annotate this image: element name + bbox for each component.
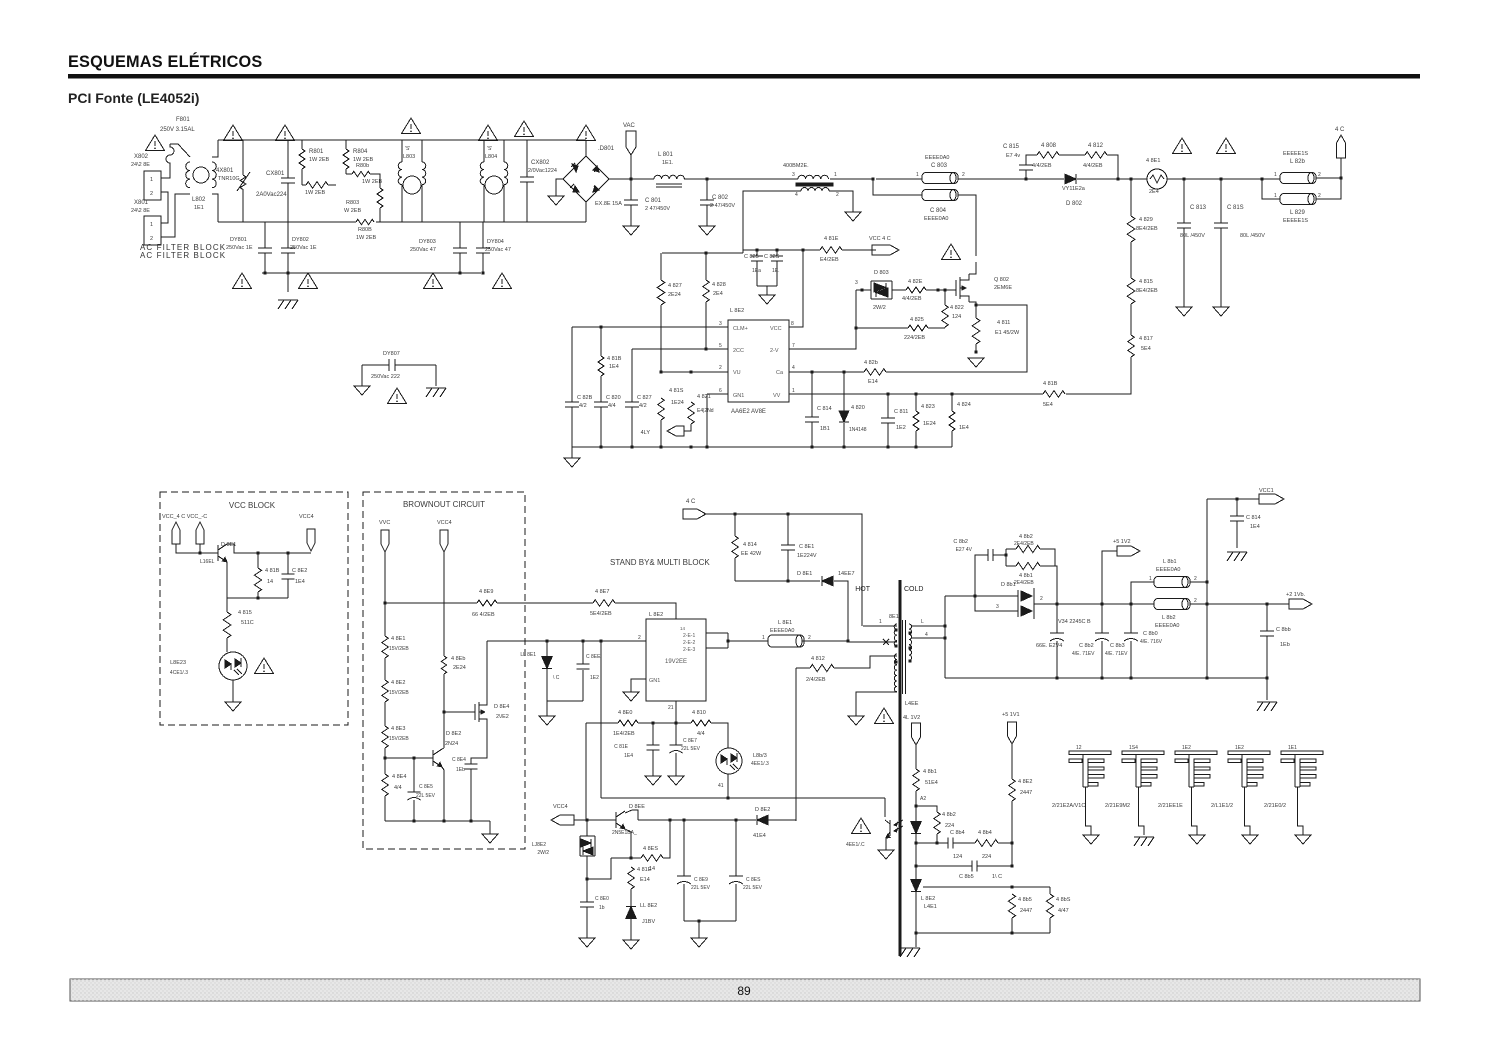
- wire: [660, 420, 662, 447]
- wire: [1190, 581, 1207, 583]
- svg-text:C 8b4: C 8b4: [950, 830, 965, 836]
- wire: [226, 638, 228, 652]
- svg-text:14: 14: [680, 626, 686, 631]
- svg-text:2: 2: [1318, 193, 1321, 199]
- wire: [482, 222, 484, 248]
- capacitor C811: [881, 418, 895, 423]
- svg-text:1E2: 1E2: [1235, 745, 1244, 751]
- resistor R812: [1085, 152, 1107, 159]
- junction: [198, 551, 201, 554]
- svg-text:4 815: 4 815: [238, 610, 252, 616]
- choke L802 common-mode choke: [186, 162, 217, 188]
- svg-text:6: 6: [719, 388, 722, 394]
- wire: [435, 365, 437, 386]
- wire: [638, 819, 756, 821]
- svg-text:1E4: 1E4: [624, 753, 633, 759]
- wire: [226, 598, 228, 612]
- wire: [586, 907, 588, 938]
- wire: [287, 273, 289, 292]
- junction: [1129, 177, 1132, 180]
- svg-text:LJ8E2: LJ8E2: [532, 842, 546, 848]
- wire: [586, 856, 588, 879]
- connector 4LY: [667, 426, 684, 436]
- svg-text:2/4/2EB: 2/4/2EB: [806, 677, 826, 683]
- svg-text:VVC: VVC: [379, 520, 390, 526]
- wire: [489, 821, 491, 834]
- svg-text:66E. E2V4: 66E. E2V4: [1036, 643, 1062, 649]
- svg-text:2E4/2EB: 2E4/2EB: [1014, 580, 1034, 586]
- inductor L804 left winding: [480, 162, 484, 185]
- heatsink HS5: [1281, 751, 1323, 787]
- junction: [705, 445, 708, 448]
- transistor Q802 MOSFET: [956, 274, 969, 302]
- heatsink HS3: [1175, 751, 1217, 787]
- svg-text:VU: VU: [733, 370, 741, 376]
- wire: [776, 250, 778, 256]
- wire U802 input: [487, 640, 646, 642]
- svg-text:250Vac 1E: 250Vac 1E: [226, 245, 253, 251]
- svg-text:R804: R804: [353, 149, 368, 155]
- wire: [630, 205, 632, 226]
- capacitor C815: [1019, 165, 1033, 170]
- wire rectified rail: [609, 178, 654, 180]
- svg-text:1: 1: [150, 177, 153, 183]
- wire ground bus: [572, 446, 952, 448]
- svg-text:C 814: C 814: [1246, 515, 1261, 521]
- wire: [401, 185, 403, 222]
- wire pin3: [572, 326, 728, 328]
- wire: [1101, 641, 1103, 678]
- svg-text:2W/2: 2W/2: [537, 850, 549, 856]
- junction: [1219, 177, 1222, 180]
- ground C8E9: [691, 938, 707, 947]
- svg-text:4 823: 4 823: [921, 404, 935, 410]
- wire: [638, 722, 691, 724]
- svg-text:250Vac 47: 250Vac 47: [410, 247, 436, 253]
- junction: [914, 841, 917, 844]
- svg-text:4/4: 4/4: [697, 731, 705, 737]
- svg-text:C 8E4: C 8E4: [452, 757, 466, 763]
- wire: [675, 723, 677, 745]
- wire: [483, 185, 485, 222]
- wire: [395, 364, 436, 366]
- wire: [242, 140, 244, 175]
- resistor R8b2: [1016, 545, 1040, 552]
- wire: [585, 140, 587, 156]
- svg-text:1W 2EB: 1W 2EB: [305, 190, 326, 196]
- svg-text:C 8b0: C 8b0: [1143, 631, 1158, 637]
- wire: [442, 748, 444, 749]
- wire right rail: [1206, 499, 1208, 678]
- svg-text:DY807: DY807: [383, 351, 400, 357]
- svg-text:4 82E: 4 82E: [908, 279, 923, 285]
- junction: [842, 445, 845, 448]
- junction: [630, 445, 633, 448]
- wire: [1220, 179, 1222, 223]
- svg-text:L 8E2: L 8E2: [921, 896, 935, 902]
- heatsink HS4: [1228, 751, 1270, 787]
- capacitor C825: [751, 256, 763, 261]
- wire: [776, 261, 778, 286]
- wire primary pin1: [863, 625, 897, 627]
- svg-text:4 8ES: 4 8ES: [643, 846, 658, 852]
- capacitor C8EE: [577, 664, 590, 669]
- svg-text:2/0Vac1224: 2/0Vac1224: [528, 168, 557, 174]
- svg-text:24\2 8E: 24\2 8E: [131, 208, 150, 214]
- svg-text:E14: E14: [640, 877, 650, 883]
- wire: [683, 820, 685, 876]
- svg-text:4 812: 4 812: [1088, 143, 1104, 149]
- junction: [950, 392, 953, 395]
- svg-text:4/4: 4/4: [394, 785, 402, 791]
- wire: [525, 602, 593, 604]
- resistor R808: [1037, 152, 1059, 159]
- wire: [586, 820, 588, 836]
- warning triangle: [479, 125, 498, 141]
- svg-text:VV: VV: [773, 393, 781, 399]
- ground HS5: [1295, 835, 1311, 844]
- wire output rail: [1034, 603, 1057, 605]
- svg-text:4 822: 4 822: [950, 305, 964, 311]
- svg-text:2: 2: [150, 236, 153, 242]
- optocoupler U8E23 optocoupler: [219, 652, 247, 680]
- resistor R827: [657, 280, 665, 305]
- wire VCC1: [1207, 498, 1259, 500]
- resistor R82b2: [864, 369, 886, 376]
- svg-text:C 8b5: C 8b5: [959, 874, 974, 880]
- title rule: [68, 74, 1420, 79]
- capacitor C813: [1177, 223, 1191, 228]
- svg-text:4 8E4: 4 8E4: [392, 774, 406, 780]
- wire secondary pin: [911, 625, 945, 627]
- svg-text:CLM+: CLM+: [733, 326, 748, 332]
- svg-text:4/E. 71EV: 4/E. 71EV: [1072, 651, 1095, 657]
- wire: [302, 184, 306, 186]
- svg-text:4 825: 4 825: [910, 317, 924, 323]
- svg-text:EEEEE1S: EEEEE1S: [1283, 151, 1308, 157]
- wire: [951, 394, 953, 411]
- svg-text:4 8E1: 4 8E1: [1146, 158, 1160, 164]
- resistor R806: [352, 171, 370, 176]
- svg-text:1E4: 1E4: [959, 425, 969, 431]
- wire: [830, 178, 873, 180]
- svg-text:2E4: 2E4: [713, 291, 723, 297]
- junction: [786, 579, 789, 582]
- wire heatsink stem: [1086, 787, 1092, 835]
- resistor R8E4: [382, 774, 389, 796]
- junction: [1265, 676, 1268, 679]
- ground C81S: [1213, 307, 1229, 316]
- svg-text:4/4: 4/4: [608, 403, 616, 409]
- svg-text:1N4148: 1N4148: [849, 427, 867, 433]
- capacitor C827: [625, 402, 639, 407]
- wire: [887, 423, 889, 447]
- wire: [264, 222, 266, 248]
- wire: [571, 447, 573, 458]
- svg-text:1W 2EB: 1W 2EB: [362, 179, 383, 185]
- choke L803 core: [403, 176, 421, 194]
- svg-text:8E1: 8E1: [889, 614, 899, 620]
- junction: [1205, 676, 1208, 679]
- svg-text:X801: X801: [134, 200, 149, 206]
- wire: [675, 753, 677, 776]
- wire: [611, 857, 641, 859]
- op-amp U801 PFC controller: [728, 320, 789, 402]
- choke L804 core: [485, 176, 503, 194]
- svg-text:CX801: CX801: [266, 171, 285, 177]
- svg-text:4 808: 4 808: [1041, 143, 1057, 149]
- wire: [1059, 154, 1085, 156]
- junction: [697, 919, 700, 922]
- capacitor C8E1cyl: [768, 635, 804, 647]
- wire heatsink stem: [1192, 787, 1198, 835]
- resistor R8bS: [1046, 894, 1053, 918]
- capacitor DY801: [258, 248, 272, 253]
- wire primary pin4: [856, 692, 897, 716]
- svg-text:C 8b2: C 8b2: [1079, 643, 1094, 649]
- svg-text:L8b/3: L8b/3: [753, 753, 767, 759]
- svg-text:4 8E7: 4 8E7: [595, 589, 609, 595]
- svg-text:C 81E: C 81E: [614, 744, 629, 750]
- wire to primary: [848, 641, 897, 643]
- warning triangle Q802: [942, 244, 961, 260]
- svg-text:2 47/450V: 2 47/450V: [645, 206, 670, 212]
- svg-text:C 8E1: C 8E1: [799, 544, 814, 550]
- junction: [943, 288, 946, 291]
- svg-text:1E4/2EB: 1E4/2EB: [613, 731, 635, 737]
- wire U802 out: [728, 640, 768, 642]
- resistor R81E2: [628, 867, 635, 889]
- svg-text:2: 2: [719, 365, 722, 371]
- svg-text:5E4/2EB: 5E4/2EB: [590, 611, 612, 617]
- junction: [842, 370, 845, 373]
- resistor R823: [913, 411, 919, 431]
- wire: [161, 192, 168, 223]
- svg-text:2N5E1BA_: 2N5E1BA_: [612, 830, 637, 836]
- wire: [384, 796, 386, 821]
- wire anode bottom: [975, 596, 1018, 611]
- connector VCC_4: [172, 522, 180, 544]
- capacitor C8E0: [580, 902, 594, 907]
- wire VVC chain: [384, 552, 386, 636]
- capacitor C8E7: [670, 745, 683, 753]
- svg-text:DY801: DY801: [230, 237, 247, 243]
- wire: [1006, 565, 1016, 567]
- wire: [199, 544, 201, 553]
- svg-text:E14: E14: [868, 379, 878, 385]
- svg-text:4 82b: 4 82b: [864, 360, 878, 366]
- svg-text:L: L: [921, 619, 924, 625]
- junction: [1182, 177, 1185, 180]
- svg-text:C 820: C 820: [606, 395, 621, 401]
- svg-text:2/L1E1/2: 2/L1E1/2: [1211, 803, 1233, 809]
- wire to Q1 base: [176, 544, 218, 553]
- svg-text:2EM6E: 2EM6E: [994, 285, 1012, 291]
- wire: [916, 932, 1050, 934]
- svg-text:1: 1: [150, 222, 153, 228]
- transformer T801 core: [796, 183, 833, 186]
- resistor R817: [1128, 335, 1135, 357]
- resistor R821: [688, 402, 695, 424]
- wire: [1055, 566, 1057, 604]
- junction: [689, 370, 692, 373]
- svg-text:250Vac 222: 250Vac 222: [371, 374, 400, 380]
- svg-text:1W 2EB: 1W 2EB: [356, 235, 377, 241]
- svg-text:4: 4: [795, 192, 798, 198]
- junction: [1339, 176, 1342, 179]
- warning triangle opto2: [852, 818, 871, 834]
- svg-text:Q 802: Q 802: [994, 277, 1009, 283]
- resistor R805: [306, 182, 328, 189]
- resistor R8E2: [382, 680, 389, 702]
- svg-text:LL 8E2: LL 8E2: [640, 903, 657, 909]
- wire: [1056, 641, 1058, 678]
- svg-text:4EE1/.3: 4EE1/.3: [751, 761, 769, 767]
- wire: [587, 858, 611, 879]
- wire: [757, 285, 777, 287]
- wire: [944, 290, 946, 305]
- warning triangle: [233, 273, 252, 289]
- svg-text:14EE7: 14EE7: [838, 571, 855, 577]
- ground brownout: [482, 834, 498, 843]
- wire: [600, 327, 602, 356]
- svg-text:2: 2: [1194, 598, 1197, 604]
- wire heatsink stem: [1298, 787, 1304, 835]
- capacitor C820: [594, 402, 608, 407]
- svg-text:4/4/2EB: 4/4/2EB: [1032, 163, 1052, 169]
- svg-text:5E4: 5E4: [1043, 402, 1053, 408]
- resistor R801: [299, 149, 305, 169]
- wire: [1038, 393, 1043, 395]
- wire brownout gnd bus: [385, 820, 490, 822]
- junction: [1055, 602, 1058, 605]
- svg-text:1E24: 1E24: [671, 400, 684, 406]
- junction: [860, 288, 863, 291]
- svg-text:1E1.: 1E1.: [662, 160, 674, 166]
- wire: [161, 168, 170, 178]
- wire bottom bus: [218, 221, 356, 223]
- resistor R804: [343, 149, 349, 169]
- svg-text:2CC: 2CC: [733, 348, 744, 354]
- wire: [766, 286, 768, 295]
- junction: [886, 392, 889, 395]
- wire: [630, 155, 632, 179]
- svg-text:D 8EE: D 8EE: [629, 804, 645, 810]
- svg-text:124: 124: [952, 314, 961, 320]
- svg-text:VCC1: VCC1: [1259, 488, 1274, 494]
- wire: [705, 302, 707, 349]
- wire: [585, 723, 587, 820]
- wire: [582, 641, 584, 664]
- svg-text:L803: L803: [403, 154, 415, 160]
- wire: [459, 253, 461, 273]
- resistor R803: [377, 188, 383, 208]
- junction: [914, 445, 917, 448]
- svg-text:89: 89: [737, 984, 751, 998]
- svg-text:4: 4: [925, 632, 928, 638]
- wire Q805 source: [471, 726, 487, 764]
- svg-text:1: 1: [834, 172, 837, 178]
- wire: [834, 581, 848, 642]
- svg-text:3: 3: [719, 321, 722, 327]
- svg-text:C 814: C 814: [817, 406, 832, 412]
- svg-text:4 810: 4 810: [692, 710, 706, 716]
- svg-text:4 81S: 4 81S: [669, 388, 684, 394]
- warning triangle opto: [255, 658, 274, 674]
- winding dot: [894, 644, 897, 647]
- wire: [842, 249, 876, 251]
- chassis ground DY807: [426, 388, 446, 397]
- svg-text:2/21EE1E: 2/21EE1E: [1158, 803, 1183, 809]
- wire: [301, 140, 303, 149]
- wire: [1026, 155, 1037, 165]
- warning triangle: [515, 121, 534, 137]
- diode D802: [1065, 174, 1076, 184]
- wire: [684, 920, 736, 922]
- svg-text:41: 41: [718, 783, 724, 789]
- inductor T801 primary: [798, 175, 828, 179]
- resistor R829: [1127, 216, 1135, 242]
- wire: [1183, 228, 1185, 307]
- resistor R8E0: [618, 720, 638, 726]
- svg-text:4 8Eb: 4 8Eb: [451, 656, 465, 662]
- junction: [886, 445, 889, 448]
- wire rail after C803: [958, 178, 1026, 180]
- capacitor DY803: [453, 248, 467, 253]
- svg-text:L8E23: L8E23: [170, 660, 186, 666]
- svg-text:4 81B: 4 81B: [607, 356, 622, 362]
- resistor R8E7: [593, 600, 615, 607]
- ground opto transistor: [878, 850, 894, 859]
- wire: [885, 837, 887, 850]
- svg-text:EEEE0A0: EEEE0A0: [1155, 623, 1179, 629]
- junction: [1010, 864, 1013, 867]
- svg-text:C 802: C 802: [712, 195, 729, 201]
- ground DY807 left: [354, 386, 370, 395]
- wire: [526, 182, 528, 222]
- svg-text:COLD: COLD: [904, 586, 923, 593]
- svg-text:4 8b1: 4 8b1: [923, 769, 937, 775]
- wire: [977, 865, 1012, 867]
- ground primary: [848, 716, 864, 725]
- svg-text:41E4: 41E4: [753, 833, 766, 839]
- connector VVC: [381, 530, 389, 552]
- wire: [915, 843, 917, 866]
- wire: [556, 179, 563, 196]
- wire: [301, 169, 303, 185]
- wire: [361, 365, 363, 386]
- svg-text:1Ea: 1Ea: [752, 268, 761, 274]
- wire: [1130, 304, 1132, 335]
- svg-text:2: 2: [1318, 172, 1321, 178]
- wire Q803 collector rail: [227, 544, 311, 553]
- svg-text:VY11E2a: VY11E2a: [1062, 186, 1086, 192]
- wire: [915, 806, 917, 824]
- junction: [256, 551, 259, 554]
- wire: [264, 253, 266, 273]
- svg-text:R801: R801: [309, 149, 324, 155]
- connector +5 1V2: [1117, 546, 1140, 556]
- resistor R80B: [356, 219, 374, 224]
- wire: [915, 834, 917, 843]
- junction: [1010, 885, 1013, 888]
- svg-text:1: 1: [762, 635, 765, 641]
- wire to transformer: [802, 640, 848, 642]
- wire: [915, 394, 917, 411]
- wire: [546, 701, 548, 716]
- svg-text:4 8E1: 4 8E1: [391, 636, 405, 642]
- svg-text:L 829: L 829: [1290, 210, 1305, 216]
